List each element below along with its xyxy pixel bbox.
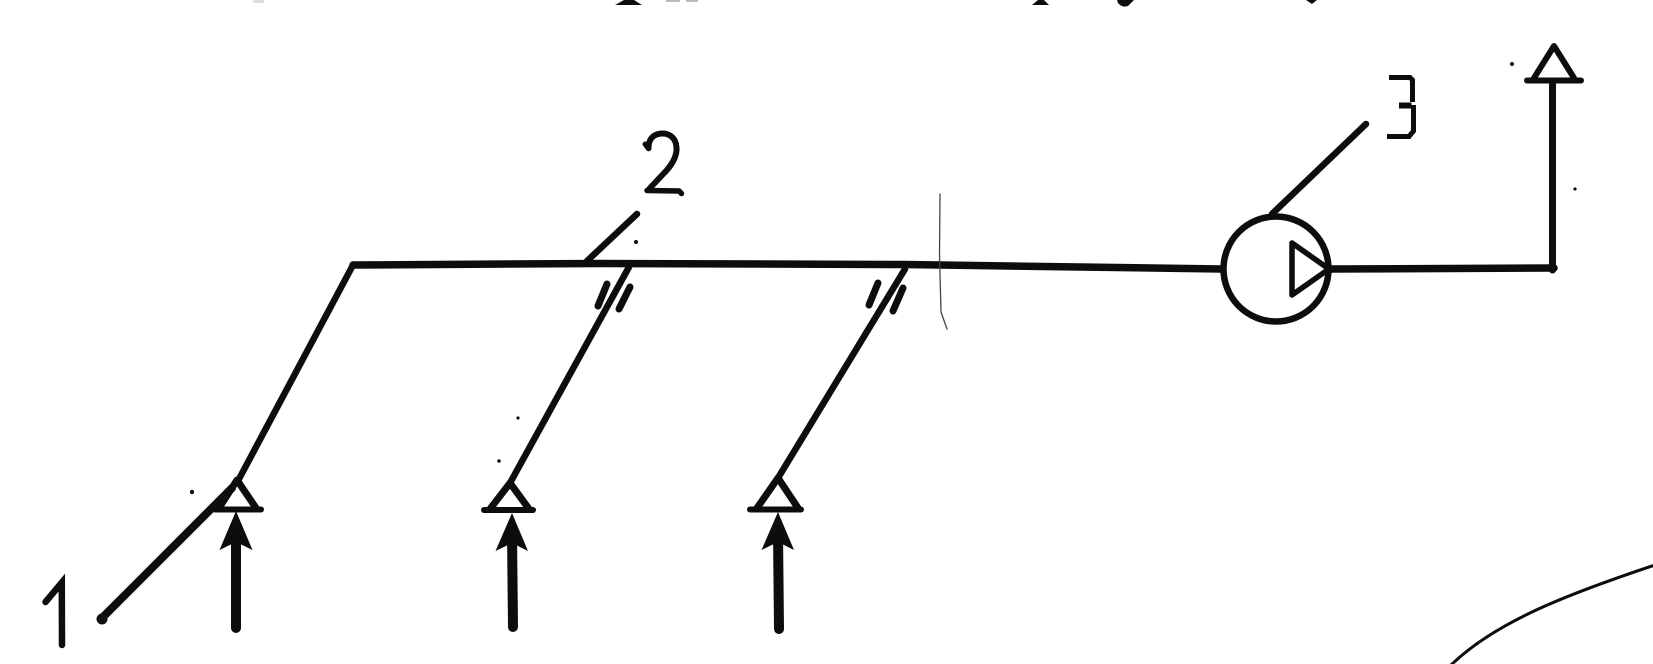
wire leader line to label 2	[587, 214, 637, 261]
wire main duct left segment	[353, 264, 1222, 270]
label 3	[1387, 78, 1414, 137]
inlet arrow 1 head	[220, 511, 253, 550]
wire triangle 1 base line	[215, 507, 261, 513]
inlet terminal triangle 1	[219, 480, 256, 508]
wire main duct right segment	[1330, 268, 1554, 269]
slope hatch marks at junction 2	[598, 284, 607, 306]
wire leader line to label 3	[1272, 124, 1366, 214]
slope hatch marks at junction 3	[869, 283, 878, 305]
inlet arrow 2 shaft	[512, 534, 513, 627]
wire branch duct 1	[239, 265, 353, 479]
scan crease line	[940, 194, 948, 329]
wire branch duct 3	[778, 269, 905, 478]
fan 3 circle	[1224, 217, 1329, 322]
inlet arrow 1 shaft	[231, 532, 241, 628]
inlet arrow 3 shaft	[778, 533, 779, 629]
inlet terminal triangle 2	[490, 483, 529, 509]
fan 3 impeller triangle	[1292, 243, 1329, 295]
label 1	[46, 583, 63, 646]
outlet air terminal triangle	[1534, 46, 1574, 78]
wire outlet triangle base line	[1527, 78, 1581, 84]
inlet terminal triangle 3	[757, 478, 798, 508]
page curl artifact bottom right	[1449, 565, 1653, 664]
label 2	[645, 133, 681, 193]
inlet arrow 2 head	[496, 513, 529, 551]
wire outlet riser	[1549, 81, 1556, 270]
inlet arrow 3 head	[762, 512, 795, 550]
ink specks	[97, 62, 1577, 625]
wire triangle 2 base line	[484, 507, 533, 513]
wire leader line to label 1	[101, 488, 232, 619]
wire branch duct 2	[510, 267, 629, 483]
cropped text fragments at top edge	[253, 0, 1317, 7]
wire triangle 3 base line	[750, 507, 801, 513]
